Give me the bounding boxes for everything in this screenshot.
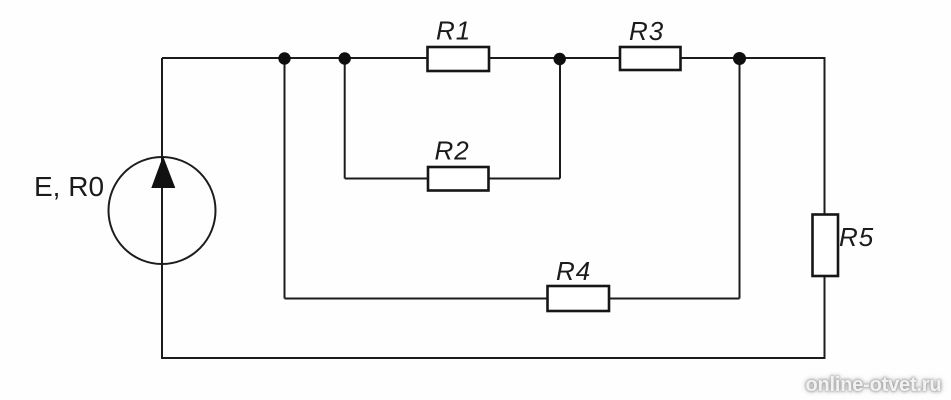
svg-text:R3: R3 [629,16,664,46]
source arrow head [151,156,175,188]
resistor R3 body [620,47,681,70]
svg-text:R1: R1 [436,16,471,46]
svg-text:R2: R2 [435,136,470,166]
node B junction dot [339,52,351,64]
resistor R1 body [428,47,490,71]
wire: left vertical through source E,R0 [161,58,163,358]
node A junction dot [278,52,290,64]
resistor R5 body [813,215,839,277]
wire: R4 branch horizontal [285,298,740,300]
svg-text:E, R0: E, R0 [34,171,104,202]
wire: vertical from node B down to R2 branch [344,58,346,179]
svg-text:R5: R5 [839,222,874,252]
resistor R4 body [548,286,610,311]
source E,R0 circle [109,157,216,264]
node C junction dot [554,53,566,65]
svg-text:R4: R4 [556,256,591,286]
wire: vertical from node D down to R4 branch [739,58,741,299]
wire: top horizontal bus from source to right branch [162,57,825,59]
node D junction dot [733,52,746,65]
wire: vertical from node A down to R4 branch [284,58,286,299]
watermark online-otvet.ru [806,374,942,397]
wire: vertical from R2 branch up to node C [559,58,561,179]
resistor R2 body [428,167,489,191]
wire: right vertical through R5 [824,57,826,358]
wire: R2 branch horizontal [345,178,560,180]
wire: bottom horizontal return [161,357,826,359]
